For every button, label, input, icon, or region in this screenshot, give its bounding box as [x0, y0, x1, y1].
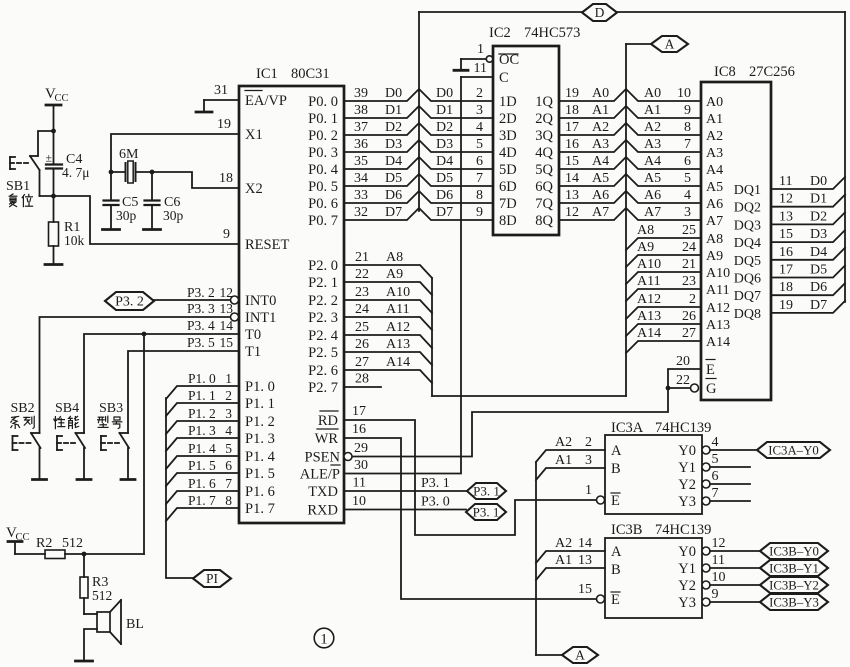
wire IC3B Y2 pin 10 to IC3B-Y2 label — [702, 570, 760, 589]
wire P3.2 to INT0 pin 12 — [154, 285, 233, 300]
pin bubble IC3A E — [597, 496, 605, 504]
svg-text:A6: A6 — [644, 188, 661, 203]
ground below SB2 — [33, 478, 47, 481]
svg-text:80C31: 80C31 — [291, 66, 330, 82]
ground at IC1 EA/VP pin 31 — [196, 83, 239, 112]
svg-text:12: 12 — [779, 192, 793, 207]
svg-text:D0: D0 — [810, 174, 827, 189]
svg-text:SB2: SB2 — [11, 401, 35, 416]
svg-text:P3. 5: P3. 5 — [187, 335, 215, 350]
wire P2.3/A11 from IC1 pin 24 to P2 bus — [345, 302, 432, 330]
svg-text:2: 2 — [585, 435, 592, 450]
wire RD pin 17 to IC3A E pin 1 — [344, 404, 597, 535]
svg-text:A14: A14 — [386, 355, 410, 370]
svg-text:DQ7: DQ7 — [734, 289, 761, 304]
svg-text:5: 5 — [684, 171, 691, 186]
svg-text:IC1: IC1 — [256, 66, 278, 82]
wire IC3A Y2 stub pin 6 — [702, 469, 750, 488]
wire X2 pin 18 — [152, 171, 239, 188]
svg-text:P2. 6: P2. 6 — [308, 363, 338, 379]
svg-text:5D: 5D — [499, 162, 517, 178]
wire P0.1/D1 from IC1 pin 38 to IC2 pin 3 — [344, 103, 493, 118]
svg-text:28: 28 — [355, 372, 369, 387]
svg-text:A14: A14 — [706, 335, 730, 350]
svg-text:D5: D5 — [436, 171, 453, 186]
svg-text:Y1: Y1 — [678, 460, 696, 476]
svg-text:P1. 6: P1. 6 — [245, 484, 275, 500]
node IC3B-Y2 hexagon — [760, 577, 828, 593]
svg-text:P0. 3: P0. 3 — [308, 145, 338, 161]
svg-text:A10: A10 — [637, 257, 661, 272]
svg-text:9: 9 — [476, 205, 483, 220]
svg-text:P0. 4: P0. 4 — [308, 162, 339, 178]
node D net label hexagon — [582, 4, 617, 21]
svg-text:P3. 1: P3. 1 — [473, 484, 500, 499]
svg-text:A1: A1 — [555, 553, 572, 568]
wire SB3 to T1 pin 15 — [128, 335, 239, 433]
svg-text:A6: A6 — [592, 188, 609, 203]
wire speaker return to ground — [84, 629, 97, 661]
svg-text:D4: D4 — [436, 154, 453, 169]
svg-text:18: 18 — [779, 280, 793, 295]
svg-text:15: 15 — [220, 335, 234, 350]
svg-text:A13: A13 — [706, 318, 730, 333]
svg-text:P2. 1: P2. 1 — [308, 275, 338, 291]
wire A14 from A-bus to IC8 pin 27 — [626, 326, 701, 353]
wire A8 from A-bus to IC8 pin 25 — [626, 223, 701, 250]
IC U3A: IC3A 74HC139 decoder body — [605, 420, 711, 514]
svg-text:A7: A7 — [706, 214, 723, 229]
svg-text:A12: A12 — [637, 292, 661, 307]
pin bubble INT1 — [231, 313, 239, 321]
svg-text:±: ± — [46, 151, 53, 165]
svg-text:A4: A4 — [644, 154, 661, 169]
svg-text:35: 35 — [354, 154, 368, 169]
node junction crystal right — [150, 170, 155, 175]
svg-text:19: 19 — [779, 298, 793, 313]
svg-text:9: 9 — [712, 587, 719, 602]
svg-text:4. 7μ: 4. 7μ — [62, 165, 90, 180]
wire P1.1 pin 2 to P1 bus — [166, 388, 239, 416]
svg-text:30p: 30p — [163, 208, 184, 223]
svg-text:7D: 7D — [499, 196, 517, 212]
svg-text:5: 5 — [225, 441, 232, 456]
wire P1.0 pin 1 to P1 bus — [166, 371, 239, 399]
svg-text:P1. 1: P1. 1 — [245, 396, 275, 412]
svg-text:D5: D5 — [385, 171, 402, 186]
svg-text:D0: D0 — [385, 86, 402, 101]
svg-text:P1. 2: P1. 2 — [188, 406, 216, 421]
svg-text:A1: A1 — [644, 103, 661, 118]
wire reset node to RESET pin 9 — [40, 196, 240, 244]
resistor R2 512 — [15, 536, 144, 559]
svg-text:17: 17 — [565, 120, 579, 135]
svg-text:D1: D1 — [810, 192, 827, 207]
capacitor C5 30p — [104, 172, 139, 229]
svg-text:2Q: 2Q — [535, 111, 553, 127]
svg-text:8: 8 — [225, 493, 232, 508]
svg-text:D3: D3 — [436, 137, 453, 152]
svg-text:WR: WR — [315, 431, 339, 447]
svg-text:E: E — [706, 362, 715, 378]
wire A2 to IC3B pin 14 — [536, 536, 605, 563]
svg-text:P0. 5: P0. 5 — [308, 179, 338, 195]
svg-text:38: 38 — [354, 103, 368, 118]
wire P0.6/D6 from IC1 pin 33 to IC2 pin 8 — [344, 188, 493, 203]
svg-text:22: 22 — [355, 267, 369, 282]
pin bubble IC3B E — [597, 595, 605, 603]
svg-text:CC: CC — [55, 93, 69, 104]
wire P1.3 pin 4 to P1 bus — [166, 423, 239, 451]
svg-text:1: 1 — [225, 371, 232, 386]
node IC3B-Y0 hexagon — [760, 543, 828, 559]
IC U2: IC2 74HC573 latch body — [489, 25, 580, 235]
svg-text:P3. 1: P3. 1 — [421, 476, 450, 491]
wire P2.5/A13 from IC1 pin 26 to P2 bus — [345, 337, 432, 365]
wire P2.6/A14 from IC1 pin 27 to P2 bus — [345, 355, 432, 383]
svg-text:A7: A7 — [644, 205, 661, 220]
svg-text:P3. 2: P3. 2 — [115, 295, 144, 310]
speaker BL — [84, 600, 144, 644]
node P3.1 hexagon lower — [466, 504, 506, 520]
svg-text:IC3B–Y2: IC3B–Y2 — [769, 579, 819, 593]
svg-text:P1. 2: P1. 2 — [245, 414, 275, 430]
svg-text:3: 3 — [476, 103, 483, 118]
wire A5 from IC2 pin 14 to IC8 pin 5 — [559, 171, 701, 186]
wire P1.7 pin 8 to P1 bus — [166, 493, 239, 521]
pin bubble IC8 G pin 22 — [691, 384, 699, 392]
wire A0 from IC2 pin 19 to IC8 pin 10 — [559, 86, 701, 101]
wire IC3A Y0 pin 4 to IC3A-Y0 label — [702, 435, 757, 454]
svg-text:74HC139: 74HC139 — [655, 420, 711, 436]
svg-text:D4: D4 — [810, 245, 827, 260]
wire P2 bus vertical — [431, 278, 433, 396]
svg-text:2: 2 — [225, 388, 232, 403]
svg-text:P2. 4: P2. 4 — [308, 328, 339, 344]
node A net label hexagon bottom — [536, 647, 598, 663]
svg-text:A: A — [665, 37, 675, 52]
wire P2.0/A8 from IC1 pin 21 to P2 bus — [345, 250, 432, 278]
IC U3B: IC3B 74HC139 decoder body — [605, 522, 711, 618]
svg-text:P3. 4: P3. 4 — [187, 318, 215, 333]
svg-text:INT1: INT1 — [245, 310, 276, 326]
svg-text:D7: D7 — [436, 205, 453, 220]
svg-text:10: 10 — [712, 570, 726, 585]
svg-text:P2. 3: P2. 3 — [308, 310, 338, 326]
svg-text:13: 13 — [565, 188, 579, 203]
svg-text:A10: A10 — [706, 266, 730, 281]
wire DQ4/D3 from IC8 pin 15 to D-bus — [771, 227, 845, 242]
svg-text:1: 1 — [585, 483, 592, 498]
wire P0.3/D3 from IC1 pin 36 to IC2 pin 5 — [344, 137, 493, 152]
svg-text:RXD: RXD — [307, 503, 338, 519]
resistor R1 10k — [49, 196, 85, 264]
svg-text:DQ8: DQ8 — [734, 307, 761, 322]
pin bubble IC1 PSEN pin 29 — [344, 453, 352, 461]
wire IC3B Y3 pin 9 to IC3B-Y3 label — [702, 587, 760, 606]
wire A-bus vertical between IC2 and IC8 — [625, 44, 627, 396]
svg-text:11: 11 — [353, 476, 366, 491]
svg-text:A10: A10 — [386, 285, 410, 300]
svg-text:ALE/P: ALE/P — [300, 467, 340, 483]
svg-text:DQ6: DQ6 — [734, 272, 761, 287]
svg-text:A0: A0 — [706, 95, 723, 110]
svg-text:3Q: 3Q — [535, 128, 553, 144]
svg-text:31: 31 — [214, 83, 228, 98]
svg-text:7: 7 — [684, 137, 691, 152]
ground at IC2 OC pin 1 — [454, 42, 486, 70]
ground below speaker — [76, 660, 93, 663]
switch SB2 series button — [11, 401, 41, 479]
svg-text:D: D — [595, 5, 605, 20]
svg-text:11: 11 — [474, 61, 487, 76]
svg-text:13: 13 — [578, 553, 592, 568]
svg-text:P1. 7: P1. 7 — [245, 501, 275, 517]
svg-text:INT0: INT0 — [245, 293, 276, 309]
wire P1.6 pin 7 to P1 bus — [166, 476, 239, 504]
svg-text:A13: A13 — [386, 337, 410, 352]
wire ALE to IC2 C pin 11 — [461, 61, 493, 77]
svg-text:8D: 8D — [499, 213, 517, 229]
wire A13 from A-bus to IC8 pin 26 — [626, 309, 701, 336]
svg-text:7: 7 — [712, 486, 719, 501]
label SB3 xinghao model CJK — [98, 416, 122, 428]
svg-text:6M: 6M — [119, 147, 139, 162]
svg-text:16: 16 — [565, 137, 579, 152]
svg-text:36: 36 — [354, 137, 368, 152]
svg-text:6: 6 — [712, 469, 719, 484]
svg-text:11: 11 — [712, 553, 725, 568]
wire P1 bus vertical to PI — [166, 398, 193, 578]
svg-text:26: 26 — [355, 337, 369, 352]
svg-text:B: B — [611, 461, 621, 477]
svg-text:P0. 7: P0. 7 — [308, 213, 338, 229]
svg-text:PI: PI — [206, 571, 219, 586]
svg-text:1: 1 — [477, 42, 484, 57]
svg-text:A: A — [575, 648, 585, 663]
switch SB4 performance button — [55, 401, 85, 479]
label SB1 fuwei reset CJK — [9, 194, 32, 207]
wire SB2 to INT1 pin 13 — [40, 301, 234, 433]
svg-text:16: 16 — [352, 422, 366, 437]
svg-text:26: 26 — [682, 309, 696, 324]
svg-text:A11: A11 — [706, 283, 730, 298]
svg-text:7: 7 — [225, 476, 232, 491]
svg-text:A11: A11 — [637, 274, 661, 289]
wire D-bus vertical left of IC2 — [418, 12, 420, 211]
svg-text:D7: D7 — [385, 205, 402, 220]
wire A12 from A-bus to IC8 pin 2 — [626, 292, 701, 319]
svg-text:39: 39 — [354, 86, 368, 101]
node P3.2 hexagon — [105, 292, 154, 310]
svg-text:A13: A13 — [637, 309, 661, 324]
svg-text:A8: A8 — [637, 223, 654, 238]
svg-text:P1. 0: P1. 0 — [245, 379, 275, 395]
svg-text:6: 6 — [684, 154, 691, 169]
svg-text:EA/VP: EA/VP — [245, 93, 287, 109]
svg-text:1: 1 — [320, 632, 328, 648]
svg-text:14: 14 — [578, 536, 592, 551]
svg-text:A: A — [611, 544, 622, 560]
svg-text:DQ5: DQ5 — [734, 254, 761, 269]
svg-text:D2: D2 — [436, 120, 453, 135]
svg-text:D6: D6 — [810, 280, 827, 295]
svg-text:A1: A1 — [555, 453, 572, 468]
svg-text:10: 10 — [352, 494, 366, 509]
svg-text:Y0: Y0 — [678, 544, 696, 560]
node junction SB1 branch — [51, 129, 56, 134]
svg-text:P1. 5: P1. 5 — [188, 458, 216, 473]
svg-text:7Q: 7Q — [535, 196, 553, 212]
svg-text:19: 19 — [217, 117, 231, 132]
wire A6 from IC2 pin 13 to IC8 pin 4 — [559, 188, 701, 203]
svg-text:4: 4 — [712, 435, 719, 450]
svg-text:P3. 2: P3. 2 — [187, 285, 215, 300]
wire T0 branch down to speaker node — [143, 334, 145, 554]
node IC3A-Y0 hexagon — [757, 442, 830, 458]
svg-text:IC3A: IC3A — [611, 420, 644, 436]
node junction T0 speaker branch — [142, 332, 147, 337]
wire P2.1/A9 from IC1 pin 22 to P2 bus — [345, 267, 432, 295]
svg-text:74HC139: 74HC139 — [655, 522, 711, 538]
svg-text:1D: 1D — [499, 94, 517, 110]
svg-text:A1: A1 — [592, 103, 609, 118]
wire P2.4/A12 from IC1 pin 25 to P2 bus — [345, 320, 432, 348]
node junction R2 R3 — [82, 552, 87, 557]
svg-text:21: 21 — [682, 257, 696, 272]
ground below C5 — [103, 228, 120, 231]
wire IC3A Y3 stub pin 7 — [702, 486, 750, 505]
svg-text:P1. 4: P1. 4 — [188, 441, 216, 456]
svg-text:D6: D6 — [436, 188, 453, 203]
svg-text:12: 12 — [565, 205, 579, 220]
svg-text:A3: A3 — [592, 137, 609, 152]
wire A2 to IC3A pin 2 — [536, 435, 605, 462]
svg-text:IC2: IC2 — [489, 25, 511, 41]
wire IC3B Y1 pin 11 to IC3B-Y1 label — [702, 553, 760, 572]
wire P0.7/D7 from IC1 pin 32 to IC2 pin 9 — [344, 205, 493, 220]
svg-text:6D: 6D — [499, 179, 517, 195]
svg-text:23: 23 — [682, 274, 696, 289]
svg-text:X1: X1 — [245, 127, 263, 143]
svg-text:30p: 30p — [116, 208, 137, 223]
wire A11 from A-bus to IC8 pin 23 — [626, 274, 701, 301]
svg-text:33: 33 — [354, 188, 368, 203]
svg-text:15: 15 — [779, 227, 793, 242]
wire WR pin 16 to IC3B E pin 15 — [344, 422, 597, 599]
wire DQ5/D4 from IC8 pin 16 to D-bus — [771, 245, 845, 260]
svg-text:D3: D3 — [810, 227, 827, 242]
wire A10 from A-bus to IC8 pin 21 — [626, 257, 701, 284]
svg-text:34: 34 — [354, 171, 368, 186]
svg-text:P1. 5: P1. 5 — [245, 466, 275, 482]
svg-text:512: 512 — [92, 588, 112, 603]
svg-text:D7: D7 — [810, 298, 827, 313]
wire X1 pin 19 — [111, 117, 239, 172]
svg-text:15: 15 — [565, 154, 579, 169]
svg-text:4: 4 — [476, 120, 483, 135]
wire A3 from IC2 pin 16 to IC8 pin 7 — [559, 137, 701, 152]
ground below C6 — [144, 228, 161, 231]
svg-text:30: 30 — [354, 458, 368, 473]
svg-text:A5: A5 — [706, 180, 723, 195]
svg-text:A2: A2 — [592, 120, 609, 135]
svg-text:4: 4 — [684, 188, 691, 203]
wire P0.2/D2 from IC1 pin 37 to IC2 pin 4 — [344, 120, 493, 135]
svg-text:5: 5 — [712, 452, 719, 467]
svg-text:D5: D5 — [810, 263, 827, 278]
svg-text:TXD: TXD — [308, 484, 338, 500]
svg-text:15: 15 — [578, 582, 592, 597]
node figure number 1 circled — [314, 628, 334, 648]
svg-text:IC8: IC8 — [714, 64, 736, 80]
wire P1.4 pin 5 to P1 bus — [166, 441, 239, 469]
svg-text:8: 8 — [476, 188, 483, 203]
svg-text:T0: T0 — [245, 327, 261, 343]
svg-text:P1. 7: P1. 7 — [188, 493, 216, 508]
svg-text:22: 22 — [676, 373, 690, 388]
svg-text:A5: A5 — [644, 171, 661, 186]
wire DQ8/D7 from IC8 pin 19 to D-bus — [771, 298, 845, 313]
svg-text:A4: A4 — [592, 154, 609, 169]
svg-text:2: 2 — [689, 292, 696, 307]
svg-text:27: 27 — [682, 326, 696, 341]
svg-text:R2: R2 — [36, 536, 52, 551]
svg-text:P2. 5: P2. 5 — [308, 345, 338, 361]
svg-text:10k: 10k — [64, 233, 85, 248]
power VCC lower left — [6, 525, 30, 554]
svg-text:25: 25 — [682, 223, 696, 238]
svg-text:512: 512 — [62, 536, 83, 551]
svg-text:25: 25 — [355, 320, 369, 335]
svg-text:RESET: RESET — [245, 237, 289, 253]
svg-text:P3. 3: P3. 3 — [187, 301, 215, 316]
svg-text:P1. 1: P1. 1 — [188, 388, 216, 403]
wire A1 to IC3A pin 3 — [536, 453, 605, 480]
wire A4 from IC2 pin 15 to IC8 pin 6 — [559, 154, 701, 169]
wire A1 to IC3B pin 13 — [536, 553, 605, 580]
wire DQ6/D5 from IC8 pin 17 to D-bus — [771, 263, 845, 278]
svg-text:P0. 6: P0. 6 — [308, 196, 338, 212]
svg-text:3: 3 — [684, 205, 691, 220]
power VCC upper left — [45, 86, 69, 131]
svg-text:P1. 3: P1. 3 — [188, 423, 216, 438]
svg-text:A0: A0 — [592, 86, 609, 101]
svg-text:C: C — [499, 70, 509, 86]
wire A9 from A-bus to IC8 pin 24 — [626, 240, 701, 267]
svg-text:P1. 4: P1. 4 — [245, 449, 276, 465]
wire TXD pin 11 to P3.1 label — [344, 476, 467, 492]
capacitor C6 30p — [145, 172, 184, 229]
wire P2.7 stub pin 28 — [345, 372, 381, 388]
ground below SB3 — [121, 478, 135, 481]
svg-text:23: 23 — [355, 285, 369, 300]
label SB4 xingneng performance CJK — [54, 416, 79, 428]
wire RXD pin 10 to P3.1 label — [344, 494, 466, 510]
svg-text:P3. 1: P3. 1 — [473, 505, 500, 520]
svg-text:P2. 2: P2. 2 — [308, 293, 338, 309]
svg-text:P2. 0: P2. 0 — [308, 258, 338, 274]
svg-text:IC3A–Y0: IC3A–Y0 — [768, 444, 818, 458]
svg-text:P0. 1: P0. 1 — [308, 111, 338, 127]
svg-text:27C256: 27C256 — [749, 64, 795, 80]
svg-text:D6: D6 — [385, 188, 402, 203]
svg-text:A3: A3 — [644, 137, 661, 152]
svg-text:74HC573: 74HC573 — [524, 25, 580, 41]
svg-text:A8: A8 — [386, 250, 403, 265]
svg-text:G: G — [706, 381, 717, 397]
wire P2 bus to A bus horizontal — [432, 395, 626, 397]
